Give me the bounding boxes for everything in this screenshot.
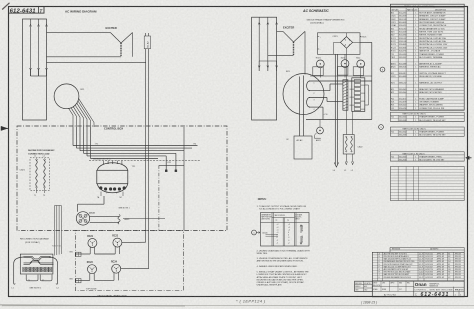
bus bar 1 with jog xyxy=(24,256,51,260)
small box left of title block xyxy=(355,281,373,291)
wire exciter bottom xyxy=(47,56,122,58)
generator rotor B21 (wiring diagram) xyxy=(54,84,79,109)
receptacle RC21 stem xyxy=(90,247,94,254)
drawing number box top-left xyxy=(9,7,45,14)
chart voltage arrows xyxy=(300,225,302,233)
wire exciter top xyxy=(47,32,111,34)
receptacle RC23 stem xyxy=(90,273,94,280)
reconnection terminal block TB xyxy=(20,254,53,274)
wire AN21 to K21 drop xyxy=(123,218,165,220)
CB21 pole at x=44.5 xyxy=(44,161,46,187)
title block main xyxy=(372,281,464,297)
long feed wires to front panel xyxy=(145,33,147,242)
circuit breaker CB22 xyxy=(343,135,354,155)
receptacle RC24 xyxy=(112,264,121,273)
note flag circles xyxy=(380,67,385,72)
rotor lead fan xyxy=(69,109,73,128)
CB21 pole at x=36.5 xyxy=(36,161,38,187)
box AC-AC xyxy=(294,136,312,159)
generator rotor B21 (schematic) xyxy=(283,74,324,115)
wire bridge to panel rail xyxy=(360,41,372,43)
connector plug J21A1 xyxy=(76,212,89,225)
wire rail 2 xyxy=(310,75,372,77)
load lead L1 xyxy=(14,257,24,284)
schematic stator bus xyxy=(252,17,277,120)
parts sub-table 2 xyxy=(390,127,464,136)
T21 secondary tub with terminals xyxy=(97,184,127,193)
load lead L2 xyxy=(50,257,58,284)
wire bundle to K21 terminal 2 xyxy=(175,153,177,170)
T21 primary dome xyxy=(97,163,127,171)
wire rotor tap 1 xyxy=(310,80,372,82)
wire bundle to K21 terminal 1 xyxy=(165,156,167,170)
wire bottom rail schematic xyxy=(306,119,372,121)
front panel dash-dot outline xyxy=(75,231,183,291)
rotor winding lower xyxy=(307,98,310,108)
terminal row xyxy=(23,267,26,272)
parts sub-table 3 xyxy=(390,152,464,161)
empty ruled continuation grid xyxy=(390,167,464,201)
voltage adjustment chart xyxy=(261,213,310,247)
cable to AN21 xyxy=(90,215,119,217)
dashed harness line J21 xyxy=(89,160,201,162)
receptacle RC22 xyxy=(113,238,122,247)
wire rotor tap 3 xyxy=(310,97,328,99)
revision history table xyxy=(372,252,464,281)
wire rotor tap 2 xyxy=(310,90,331,92)
meter M22 xyxy=(357,60,365,68)
wire label box xyxy=(144,36,150,49)
terminal straps xyxy=(26,275,38,281)
bus bar 2 with jog xyxy=(24,261,54,265)
parts list table xyxy=(390,4,464,110)
wire bus to panel feed xyxy=(47,61,146,63)
receptacle RC24 stem xyxy=(114,273,118,281)
bridge rectifier assembly CR21 box xyxy=(318,33,361,55)
left edge fold arrow xyxy=(1,126,7,130)
load lead arrows L0 L1 L2 xyxy=(334,54,336,164)
rotor winding upper xyxy=(307,81,310,91)
panel ground terminal xyxy=(76,252,81,256)
receptacle RC22 stem xyxy=(115,247,119,255)
scan bottom edge line xyxy=(2,304,474,307)
leads to AC box xyxy=(299,77,301,137)
wire control box right drop xyxy=(183,127,185,231)
wire bundle into control box xyxy=(72,127,74,146)
wire rotor tap 4 xyxy=(310,106,324,108)
terminal block TB21 xyxy=(352,78,365,112)
wire TB21 to CB22 xyxy=(352,111,354,134)
generator stator bus (wiring diagram) xyxy=(23,19,47,120)
receptacle interconnect wires xyxy=(75,253,90,255)
corner scan mark xyxy=(2,3,9,10)
connector feed wires xyxy=(78,203,105,205)
control box dashed outline xyxy=(17,126,227,231)
wire bridge bottom to CB22 xyxy=(345,54,347,134)
K21 terminals xyxy=(165,170,167,172)
grounding strip (hatched bar) xyxy=(343,80,348,110)
parts sub-table 1 xyxy=(390,112,464,121)
receptacle RC23 xyxy=(88,265,97,274)
T21 core box xyxy=(97,170,128,183)
ammeter AM21 xyxy=(317,127,324,134)
revision arrow right margin xyxy=(466,156,472,159)
lamp RV21 xyxy=(316,60,324,68)
bridge rectifier CR21 diamond xyxy=(340,37,352,49)
meter M21 xyxy=(341,60,349,68)
receptacle RC21 xyxy=(88,239,97,248)
